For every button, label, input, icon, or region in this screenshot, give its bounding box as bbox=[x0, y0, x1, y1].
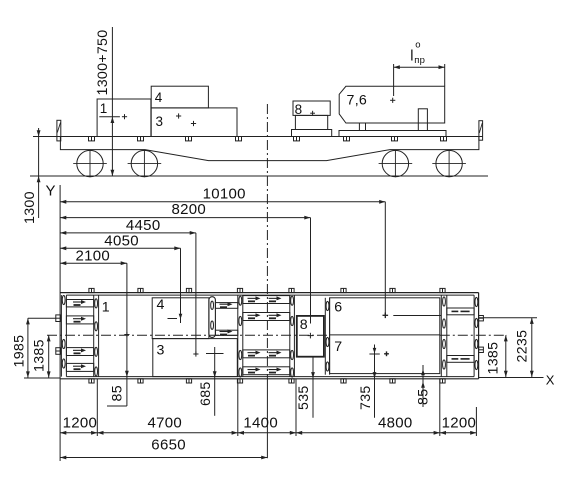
middle section bundle row 3 bbox=[243, 350, 290, 358]
arrow to deck level bbox=[37, 130, 41, 136]
plan top stake tab 4 bbox=[237, 288, 242, 292]
extension to item 4 centre bbox=[180, 248, 182, 323]
svg-text:3: 3 bbox=[157, 343, 165, 359]
svg-text:8: 8 bbox=[300, 317, 308, 333]
svg-text:2235: 2235 bbox=[515, 330, 531, 363]
item 7 centre cross bbox=[374, 345, 376, 353]
plan bottom stake tab 2 bbox=[138, 379, 143, 383]
item 6/7 box (plan) bbox=[330, 298, 440, 374]
dimension line 4050 bbox=[60, 247, 180, 249]
bottom chain dimension line bbox=[60, 432, 476, 434]
plan inner bottom edge bbox=[66, 376, 474, 378]
dimension line 1385 right bbox=[505, 335, 507, 377]
svg-text:85: 85 bbox=[109, 385, 125, 401]
left end bulkhead wall bbox=[93, 295, 95, 377]
line 535 below item 8 bbox=[312, 357, 314, 418]
svg-text:735: 735 bbox=[358, 385, 374, 410]
svg-text:1: 1 bbox=[100, 101, 108, 116]
item 4 box (side view) bbox=[151, 86, 208, 108]
tick 85 left bbox=[107, 405, 127, 407]
tank cg plus bbox=[390, 99, 395, 101]
plan top stake tab 2 bbox=[138, 288, 143, 292]
tick 685 bbox=[206, 353, 224, 355]
extension 2235 top bbox=[479, 317, 537, 319]
item 8 box (side view) bbox=[293, 101, 330, 115]
dimension line 1985 bbox=[27, 318, 29, 377]
svg-text:1: 1 bbox=[102, 299, 110, 315]
item 3 box (side view) bbox=[151, 108, 237, 137]
plan left side tab lower bbox=[56, 348, 61, 355]
svg-text:1200: 1200 bbox=[442, 415, 477, 432]
extension line at x=296 bbox=[295, 379, 297, 436]
middle section bundle row 2 bbox=[243, 313, 290, 321]
X axis extension line bbox=[479, 377, 544, 379]
deck stake pocket 7 bbox=[392, 137, 398, 141]
svg-text:4: 4 bbox=[157, 297, 165, 313]
dimension line 6650 bbox=[60, 457, 267, 459]
item 3 centre marks bbox=[176, 115, 181, 117]
svg-text:4800: 4800 bbox=[378, 415, 413, 432]
item 4 box (plan) bbox=[152, 298, 209, 339]
svg-text:1385: 1385 bbox=[486, 342, 502, 375]
left end bundle row 4 bbox=[66, 363, 93, 371]
plan outer bottom edge bbox=[61, 378, 479, 380]
mid bulkhead stadium bbox=[209, 297, 216, 338]
deck stake pocket 6 bbox=[344, 137, 350, 141]
extension to item 6 centre bbox=[384, 202, 386, 315]
wheel 1 with axle cross bbox=[77, 150, 103, 176]
item 1 box (side view) bbox=[97, 99, 151, 137]
dimension line 2235 bbox=[531, 318, 533, 377]
wheel 3 with axle cross bbox=[382, 150, 408, 176]
svg-text:1385: 1385 bbox=[32, 339, 48, 372]
svg-text:X: X bbox=[546, 373, 555, 388]
left end wall bbox=[60, 295, 62, 377]
item 7,6 tank outline bbox=[339, 86, 445, 123]
plan bottom stake tab 6 bbox=[341, 379, 346, 383]
mid-right wall bbox=[289, 295, 291, 377]
dimension line 1385 left bbox=[48, 335, 50, 377]
plan left inner edge bbox=[65, 295, 67, 377]
item 6 centre mark bbox=[383, 314, 389, 316]
left end stanchion bbox=[57, 120, 61, 141]
item 8 plus mark bbox=[310, 112, 315, 114]
plan longitudinal centreline (dash-dot) bbox=[47, 334, 330, 336]
extension line at x=439.8 bbox=[439, 379, 441, 436]
arrow down to rail bbox=[111, 170, 115, 176]
plan top stake tab 5 bbox=[289, 288, 294, 292]
l_pr extension right bbox=[444, 64, 446, 86]
line 85 right of item 7 bbox=[422, 365, 424, 407]
plan right side tab lower bbox=[479, 347, 484, 352]
item 1 centre mark (plan) bbox=[124, 334, 129, 336]
plan bottom stake tab 4 bbox=[237, 379, 242, 383]
right end stanchion bbox=[479, 121, 483, 141]
item 3 centre mark (plan) bbox=[193, 353, 198, 355]
right end left wall bbox=[440, 295, 442, 377]
plan right side tab upper bbox=[479, 316, 484, 321]
deck stake pocket 1 bbox=[89, 137, 95, 141]
plan bottom stake tab 3 bbox=[186, 379, 191, 383]
item 4 centre mark (plan) bbox=[179, 314, 183, 320]
top reference tick bbox=[97, 90, 107, 92]
wheel 4 with axle cross bbox=[436, 150, 462, 176]
item 3 box (plan) bbox=[153, 339, 238, 377]
item 8 centre mark bbox=[308, 335, 314, 337]
dimension line 10100 bbox=[60, 201, 385, 203]
wheel 2 with axle cross bbox=[131, 150, 157, 176]
svg-text:1200: 1200 bbox=[63, 415, 98, 432]
svg-text:535: 535 bbox=[296, 385, 312, 410]
plan outer top edge bbox=[61, 292, 479, 294]
plan bottom stake tab 7 bbox=[390, 379, 395, 383]
plan top stake tab 1 bbox=[89, 288, 94, 292]
mid bundle bar lower bbox=[215, 330, 237, 335]
svg-text:685: 685 bbox=[198, 381, 214, 406]
plan bottom stake tab 5 bbox=[289, 379, 294, 383]
tank support left bbox=[359, 123, 365, 131]
svg-text:o: o bbox=[415, 40, 421, 51]
svg-text:1300: 1300 bbox=[22, 191, 38, 224]
dimension line 1300 vertical bbox=[38, 128, 40, 218]
right end bundle bar upper bbox=[447, 308, 474, 315]
extension to item 8 centre bbox=[310, 218, 312, 324]
svg-text:4: 4 bbox=[155, 90, 163, 105]
item 6/7 divider bbox=[330, 334, 440, 336]
extension to item 3 centre bbox=[195, 233, 197, 354]
extension bottom left bbox=[24, 377, 61, 379]
plan right outer edge bbox=[478, 293, 480, 379]
mid bundle bar upper bbox=[215, 303, 237, 309]
plan inner top edge bbox=[66, 294, 474, 296]
plan right inner edge bbox=[473, 295, 475, 377]
svg-text:7: 7 bbox=[334, 339, 342, 355]
cg height dimension line bbox=[111, 27, 113, 176]
dimension line 8200 bbox=[60, 217, 310, 219]
plan top stake tab 6 bbox=[341, 288, 346, 292]
right end bundle bar lower bbox=[447, 356, 474, 363]
dimension line 4450 bbox=[60, 232, 196, 234]
plan top stake tab 8 bbox=[440, 288, 445, 292]
svg-text:1300+750: 1300+750 bbox=[95, 30, 111, 96]
cg tick mark bbox=[99, 116, 120, 118]
extension to item 1 centre bbox=[126, 263, 128, 334]
extension line right end bbox=[475, 407, 477, 436]
arrow to rail level bbox=[37, 176, 41, 182]
plan bottom stake tab 8 bbox=[440, 379, 445, 383]
item 6/7 left wall bbox=[324, 298, 326, 375]
l_pr dimension line bbox=[394, 66, 445, 68]
svg-text:8: 8 bbox=[295, 102, 303, 117]
left end bundle row 1 bbox=[66, 300, 93, 307]
Y axis / left reference line bbox=[59, 185, 61, 461]
svg-text:4700: 4700 bbox=[148, 415, 183, 432]
centreline extension below plan bbox=[266, 379, 268, 458]
svg-text:10100: 10100 bbox=[203, 185, 246, 202]
svg-text:1985: 1985 bbox=[11, 335, 27, 368]
rail head line bbox=[30, 175, 488, 177]
deck stake pocket 4 bbox=[236, 137, 242, 141]
car transverse centreline (dash-dot) bbox=[266, 104, 268, 379]
flatcar deck top line with left extension bbox=[33, 136, 483, 138]
plan bottom stake tab 1 bbox=[89, 379, 94, 383]
line 735 below item 7 bbox=[374, 352, 376, 418]
svg-text:6: 6 bbox=[334, 300, 342, 316]
deck stake pocket 2 bbox=[138, 137, 144, 141]
deck stake pocket 5 bbox=[294, 137, 300, 141]
left end bundle row 3 bbox=[66, 348, 93, 356]
arrow up to cg line bbox=[111, 117, 115, 123]
extension line at x=237.8 bbox=[237, 379, 239, 436]
svg-text:7,6: 7,6 bbox=[347, 93, 368, 109]
svg-text:3: 3 bbox=[156, 114, 164, 129]
item 8 box (plan) bbox=[297, 316, 324, 357]
left end bundle row 2 bbox=[66, 316, 93, 324]
svg-text:пр: пр bbox=[414, 55, 425, 66]
svg-text:6650: 6650 bbox=[151, 436, 186, 453]
right end wall hatches bbox=[475, 297, 478, 306]
svg-text:1400: 1400 bbox=[243, 415, 278, 432]
tank skid bbox=[339, 131, 446, 137]
line 685 below item 3 bbox=[214, 347, 216, 416]
plan top stake tab 3 bbox=[186, 288, 191, 292]
extension 1985 top bbox=[28, 317, 56, 319]
dimension line 2100 bbox=[60, 262, 127, 264]
mid-left wall bbox=[237, 295, 239, 377]
deck stake pocket 8 bbox=[441, 137, 447, 141]
middle section bundle row 4 bbox=[243, 367, 290, 375]
plan left side tab upper bbox=[56, 315, 61, 322]
plan top stake tab 7 bbox=[390, 288, 395, 292]
svg-text:85: 85 bbox=[416, 389, 432, 405]
extension line at x=97.3 bbox=[96, 379, 98, 436]
svg-text:Y: Y bbox=[46, 183, 56, 200]
middle section bundle row 1 bbox=[243, 296, 290, 304]
svg-text:8200: 8200 bbox=[172, 201, 207, 218]
flatcar underframe outline (fish-belly) bbox=[60, 137, 479, 161]
tank support right bbox=[418, 109, 427, 131]
line 85 below item 1 bbox=[126, 335, 128, 407]
deck stake pocket 3 bbox=[186, 137, 192, 141]
svg-text:4450: 4450 bbox=[126, 217, 161, 234]
l_pr extension left bbox=[393, 64, 395, 96]
svg-text:2100: 2100 bbox=[76, 248, 111, 265]
cg plus mark bbox=[122, 116, 127, 118]
